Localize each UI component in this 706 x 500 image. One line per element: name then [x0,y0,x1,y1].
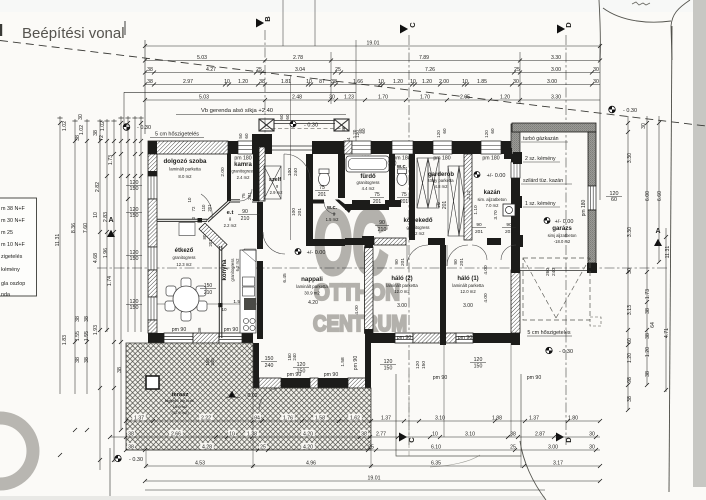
bottom long line [145,489,545,491]
svg-text:háló (2): háló (2) [391,276,412,282]
svg-text:150: 150 [130,305,139,311]
svg-text:pm 90: pm 90 [397,335,412,341]
svg-text:72: 72 [99,135,105,141]
konyha door arc [244,249,256,261]
svg-text:kazán: kazán [484,190,501,196]
svg-text:1.80: 1.80 [568,415,578,421]
svg-text:3.13: 3.13 [627,305,633,315]
svg-text:2.2 m2: 2.2 m2 [224,223,237,228]
svg-text:150: 150 [384,366,393,372]
wc3 door arc [324,202,336,214]
svg-text:1.20: 1.20 [500,94,510,100]
svg-text:120: 120 [474,357,483,363]
section marker B top [256,19,264,28]
svg-text:dolgozó szoba: dolgozó szoba [164,158,208,165]
svg-text:w.c.: w.c. [326,205,338,211]
kazan bottom wall pieces [487,238,501,245]
svg-text:sim. aljzatbeton: sim. aljzatbeton [477,197,507,202]
svg-text:1.85: 1.85 [477,79,487,85]
svg-text:2.9 m2: 2.9 m2 [270,190,283,195]
wc2 toilet [397,173,407,186]
svg-text:150: 150 [474,364,483,370]
svg-text:1.02: 1.02 [79,125,85,135]
right dim ticks [626,121,630,125]
wall dolgozo bottom thin [157,218,207,220]
svg-text:3.04: 3.04 [295,67,305,73]
garage bottom left corner [511,265,520,273]
etkezo diagonal hatched wall [199,223,227,251]
top exterior wall hatched band [148,141,228,154]
svg-text:25: 25 [260,444,266,450]
top wall corner block entry [252,134,272,154]
nappali bottom wall [253,378,259,388]
svg-text:zigetelés: zigetelés [1,254,23,260]
svg-text:10: 10 [224,79,230,85]
svg-text:pm 90: pm 90 [172,327,187,333]
garage right wall window [588,186,596,210]
etkezo table and chairs [181,278,191,288]
section line B [264,30,266,195]
svg-text:201: 201 [400,258,406,266]
svg-text:30: 30 [78,114,84,120]
svg-text:98: 98 [627,377,633,383]
svg-text:16.6 m2: 16.6 m2 [173,404,188,409]
svg-text:38: 38 [197,327,202,332]
svg-text:3.17: 3.17 [553,460,563,466]
svg-text:5 cm hőszigetelés: 5 cm hőszigetelés [527,330,570,336]
svg-text:1.83: 1.83 [62,335,68,345]
top wall pier 4 [452,141,481,154]
svg-text:pm 90: pm 90 [324,372,339,378]
svg-text:étkező: étkező [175,248,194,254]
svg-text:garázs: garázs [552,225,572,232]
svg-text:25: 25 [368,444,374,450]
svg-text:pm 90: pm 90 [433,375,448,381]
svg-text:g: g [276,183,278,188]
bottom dim row 3 [126,449,600,451]
svg-text:1.02: 1.02 [100,121,106,131]
svg-text:25: 25 [514,67,520,73]
svg-text:granitogress: granitogress [231,169,254,174]
svg-text:12.0 m2: 12.0 m2 [394,289,410,294]
svg-text:38: 38 [147,67,153,73]
svg-text:90: 90 [506,222,512,228]
svg-text:120: 120 [297,362,306,368]
svg-text:150: 150 [204,283,213,289]
svg-text:2.48: 2.48 [292,94,302,100]
svg-text:38: 38 [147,79,153,85]
svg-text:11.31: 11.31 [55,234,61,247]
svg-text:- 0.30: - 0.30 [137,125,151,131]
svg-text:240: 240 [210,358,215,366]
garage right wall upper [588,132,596,186]
svg-text:1.38: 1.38 [247,431,257,437]
svg-text:1.74: 1.74 [107,276,113,286]
scanner grey strip right edge [693,0,706,487]
etkezo sideboard rect [179,223,195,236]
svg-text:201: 201 [318,192,327,198]
svg-text:3.30: 3.30 [627,153,633,163]
svg-text:2.97: 2.97 [183,79,193,85]
svg-text:tölgy parketta: tölgy parketta [428,178,454,183]
svg-text:30: 30 [593,79,599,85]
wall nappali left vertical [257,202,263,249]
terrace elevation marker [229,391,236,397]
page edge mark left [0,24,2,36]
svg-text:25: 25 [335,67,341,73]
svg-text:3.30: 3.30 [551,55,561,61]
svg-text:38: 38 [510,431,516,437]
left wall window 1 [148,176,157,199]
svg-text:120: 120 [436,130,441,138]
svg-text:1.20: 1.20 [627,353,633,363]
svg-text:3.70: 3.70 [493,210,499,220]
wall kamra left thin [227,154,231,201]
svg-text:100: 100 [291,208,297,216]
svg-text:150: 150 [297,369,306,375]
entry porch pier left [259,119,274,131]
svg-text:4.00: 4.00 [354,305,360,315]
scribble top right [632,2,650,5]
svg-text:D: D [564,437,573,443]
svg-text:1.20: 1.20 [422,79,432,85]
halo1 door arc [447,245,468,266]
svg-text:110: 110 [201,204,206,212]
elevation marker -0.30 bottom left [115,455,121,461]
svg-text:2.82: 2.82 [95,182,101,192]
svg-text:60: 60 [627,338,633,344]
top wall window kazan [481,141,501,154]
left exterior wall [148,141,157,154]
svg-text:granitogress: granitogress [172,255,195,260]
svg-text:turbó gázkazán: turbó gázkazán [523,136,559,142]
kazan room elevation [474,172,480,178]
svg-text:11.31: 11.31 [665,246,671,259]
garage right wall lower [588,210,596,263]
svg-text:19.01: 19.01 [368,475,381,481]
section marker C bottom [399,433,407,442]
svg-text:1.66: 1.66 [353,79,363,85]
chimney block kazan-garage [504,148,512,159]
etkezo dim line and 2.65 [157,303,258,305]
wall kamra right black [253,144,259,201]
svg-text:60: 60 [244,133,249,139]
svg-text:38: 38 [84,316,90,322]
bottom dim row 2 [110,436,600,438]
svg-text:8.0 m2: 8.0 m2 [178,174,192,179]
entry door arc [284,154,310,180]
svg-text:háló (1): háló (1) [457,276,478,282]
svg-text:2.77: 2.77 [376,431,386,437]
section marker D top [557,25,565,34]
svg-text:laminált parketta: laminált parketta [386,283,418,288]
terrace corner extension lines [145,450,147,468]
svg-text:60: 60 [361,128,366,134]
svg-text:3.00: 3.00 [551,67,561,73]
driveway curve bottom right [520,441,546,500]
section marker m bottom terrace [252,433,260,442]
halo2 window [395,333,413,343]
svg-text:120: 120 [355,130,360,138]
svg-text:1.93: 1.93 [93,325,99,335]
svg-text:10: 10 [432,431,438,437]
svg-text:4.4 m2: 4.4 m2 [362,186,375,191]
wall wc2 right vertical [409,154,415,240]
svg-text:- 0.02: - 0.02 [244,393,257,399]
svg-text:60: 60 [279,114,284,120]
svg-text:pm 180: pm 180 [581,199,587,216]
legend box [0,198,37,296]
svg-text:75: 75 [241,193,247,199]
svg-text:30: 30 [589,431,595,437]
left wall window 2 [148,247,157,270]
left wall window 3 [148,297,157,320]
svg-text:87: 87 [319,79,325,85]
section line A-A horizontal [97,267,668,269]
plot curve right corner [671,0,690,60]
wall nappali halo2 vertical [365,247,374,333]
svg-text:6.2 m2: 6.2 m2 [412,231,425,236]
entry porch pier right [334,119,349,131]
wc3 room walls [306,204,313,246]
svg-text:6.35: 6.35 [431,460,441,466]
svg-text:-18.0 m2: -18.0 m2 [554,239,571,244]
elevation marker -0.30 top left [123,124,130,131]
entry door gap [272,145,312,147]
svg-text:201: 201 [208,239,213,247]
svg-text:60: 60 [285,114,290,120]
section marker D bottom [556,433,564,442]
wall kozlekedo top [345,204,389,210]
terrace door arc [259,388,281,410]
wall kamra bottom thin [229,199,240,201]
wall szelf left hatched [259,147,265,201]
svg-text:4.71: 4.71 [664,328,670,338]
svg-text:201: 201 [400,199,409,205]
svg-text:240: 240 [265,363,274,369]
patio outline rear [396,374,521,456]
svg-text:6.2 m2: 6.2 m2 [235,258,240,271]
top dim row 2 [145,60,600,62]
terrace hatched area [126,343,371,450]
svg-text:1.73: 1.73 [108,155,114,165]
wall halok top horizontal [345,238,362,245]
svg-text:201: 201 [459,258,465,266]
svg-text:1.02: 1.02 [62,121,68,131]
svg-text:3.30: 3.30 [627,227,633,237]
wall wc1 left vertical [338,154,345,198]
svg-text:60: 60 [490,128,495,134]
svg-text:2.83: 2.83 [103,212,109,222]
watermark partial ring bottom-left [0,418,33,484]
kamra door arc [240,189,252,201]
svg-text:4.20: 4.20 [303,431,313,437]
svg-text:1.37: 1.37 [134,415,144,421]
svg-text:30: 30 [627,268,633,274]
svg-text:3.00: 3.00 [397,303,407,309]
svg-text:Beépítési vonal: Beépítési vonal [22,25,125,42]
svg-text:38: 38 [645,371,651,377]
kazan chimney block 2 [513,196,522,208]
svg-text:4.28: 4.28 [202,444,212,450]
svg-text:kamra: kamra [234,162,252,168]
svg-text:150: 150 [265,356,274,362]
svg-text:C: C [407,437,416,443]
svg-text:38: 38 [361,431,367,437]
svg-text:3.10: 3.10 [465,431,475,437]
top wall window kamra [238,141,253,154]
svg-text:1.62: 1.62 [350,415,360,421]
svg-text:4.00: 4.00 [483,293,489,303]
svg-text:38: 38 [84,357,90,363]
nappali left wall [253,343,259,378]
svg-text:210: 210 [378,227,387,233]
bottom dim row 1 [126,420,600,422]
garage elevation marker [544,218,550,224]
svg-text:6.45: 6.45 [282,273,288,283]
svg-text:1.55: 1.55 [84,331,90,341]
svg-text:Vb gerenda alsó síkja +2.40: Vb gerenda alsó síkja +2.40 [201,108,273,114]
svg-text:- 0.30: - 0.30 [129,457,143,463]
elevation marker -0.30 top right [609,106,616,113]
svg-text:2.66: 2.66 [171,431,181,437]
halo wall extension lines [443,343,445,437]
svg-text:1.55: 1.55 [75,331,81,341]
wall konyha left thin vertical [218,246,220,338]
svg-text:240: 240 [551,268,557,276]
svg-text:2.05: 2.05 [460,94,470,100]
svg-text:50: 50 [238,133,243,139]
wall furdo right vertical [389,154,395,204]
svg-text:38: 38 [259,79,265,85]
svg-text:2.78: 2.78 [293,55,303,61]
svg-text:150: 150 [130,186,139,192]
top wall window wc [392,141,413,154]
bottom dim row 4 [146,465,600,467]
svg-text:75: 75 [319,185,325,191]
svg-text:pm 180: pm 180 [433,156,450,162]
halo2 door arc [407,245,428,266]
svg-text:1.20: 1.20 [238,79,248,85]
svg-text:+/- 0.00: +/- 0.00 [307,250,326,256]
konyha counter [240,250,256,333]
svg-text:1.58: 1.58 [340,357,346,367]
svg-text:D: D [564,22,573,28]
svg-text:30: 30 [641,123,647,129]
szelf cabinet xbox [264,166,281,199]
plot curve top right arc [603,8,671,22]
svg-text:150: 150 [421,361,427,369]
svg-text:nappali: nappali [301,276,323,283]
garage apron dashed [523,258,590,320]
svg-text:közlekedő: közlekedő [403,218,432,224]
garage door opening line [520,270,587,272]
svg-text:- 0.30: - 0.30 [559,349,573,355]
bottom left frame [109,448,111,496]
svg-text:210: 210 [204,290,213,296]
elevation marker -0.30 porch [290,121,296,127]
svg-text:10: 10 [221,307,227,312]
furdo bathtub [346,156,389,172]
svg-text:m 25: m 25 [1,230,13,236]
svg-text:simj aljzatbeton: simj aljzatbeton [548,233,578,238]
svg-text:38: 38 [128,431,134,437]
svg-text:120: 120 [415,361,421,369]
building line dashed diagonal [0,41,706,127]
svg-text:201: 201 [505,229,513,235]
svg-text:10: 10 [187,197,192,202]
svg-text:6.00: 6.00 [645,191,651,201]
svg-text:30.9 m2: 30.9 m2 [304,291,320,296]
svg-text:1.37: 1.37 [529,415,539,421]
svg-text:64: 64 [650,322,656,328]
svg-text:10: 10 [378,79,384,85]
svg-text:12.0 m2: 12.0 m2 [460,289,476,294]
svg-text:10: 10 [93,212,99,218]
svg-text:2.12: 2.12 [466,190,472,200]
dolgozo corner door arc [201,194,212,218]
svg-text:m 10 N+F: m 10 N+F [1,242,26,248]
svg-text:6.60: 6.60 [657,191,663,201]
svg-text:granitogress: granitogress [356,180,379,185]
svg-text:25: 25 [510,444,516,450]
top dim row 5 [145,99,600,101]
svg-text:38: 38 [117,367,123,373]
section line C [408,35,410,445]
svg-text:75: 75 [374,192,380,198]
top wall pier 5 [501,141,512,154]
svg-text:240: 240 [292,353,297,361]
svg-text:7.89: 7.89 [419,55,429,61]
bottom dim row 19.01 [145,480,600,482]
svg-text:240: 240 [293,168,299,176]
kazan corner chimney block [511,235,523,247]
top dim row 19.01 [145,45,600,47]
top wall black pier [228,141,238,154]
wall diagonal dolgozo to kamra thin [207,201,229,221]
svg-text:4.20: 4.20 [308,300,318,306]
wall furdo wc2 bottom [352,200,370,207]
top wall pier 3 [413,141,433,154]
wall halo2 halo1 vertical [440,245,446,345]
svg-text:201: 201 [297,208,303,216]
svg-text:7.26: 7.26 [425,67,435,73]
svg-text:10: 10 [306,79,312,85]
left dim ticks [58,121,62,125]
wall wc1 bottom [306,200,324,204]
svg-text:5.03: 5.03 [197,55,207,61]
top dim row 4 [145,84,600,86]
top dim row 3 [145,72,600,74]
svg-text:2.87: 2.87 [535,431,545,437]
svg-text:1.23: 1.23 [344,94,354,100]
svg-text:pm 90: pm 90 [224,327,239,333]
terrace pillar [146,376,159,389]
svg-text:2.00: 2.00 [220,167,226,177]
svg-text:m 38 N+F: m 38 N+F [1,206,26,212]
svg-text:3.00: 3.00 [463,303,473,309]
section line D [565,35,567,445]
svg-text:10: 10 [462,79,468,85]
svg-text:1.20: 1.20 [645,347,651,357]
property line right [669,26,672,492]
svg-text:1 sz. kémény: 1 sz. kémény [525,201,556,207]
svg-text:210: 210 [241,216,250,222]
top wall window furdo [352,141,371,154]
svg-text:25: 25 [256,67,262,73]
svg-text:1.81: 1.81 [281,79,291,85]
svg-text:4.68: 4.68 [93,253,99,263]
